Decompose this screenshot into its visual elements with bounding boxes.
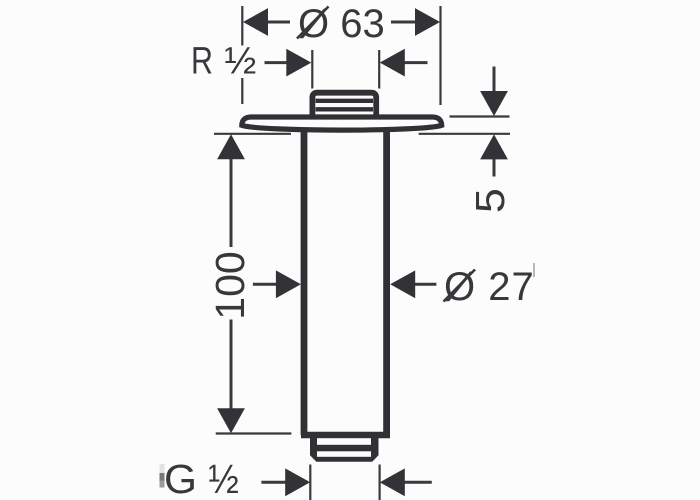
svg-text:5: 5 — [467, 188, 513, 213]
svg-text:R½: R½ — [191, 41, 256, 83]
svg-text:100: 100 — [207, 251, 253, 319]
